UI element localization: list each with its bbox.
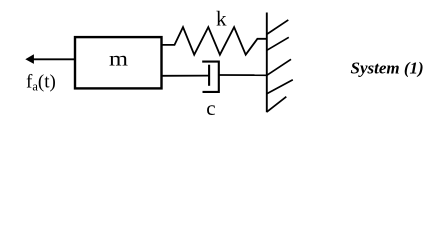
- damper rod right: [219, 74, 267, 76]
- svg-text:c: c: [206, 96, 215, 120]
- force arrow line: [34, 58, 76, 60]
- damper cylinder: [202, 62, 219, 92]
- wall hatch 4: [267, 80, 293, 94]
- svg-text:k: k: [216, 7, 227, 31]
- damper piston plate: [208, 65, 210, 86]
- wall hatch 5: [267, 97, 287, 112]
- wall hatch 2: [267, 37, 289, 50]
- svg-text:System (1): System (1): [351, 58, 424, 77]
- wall hatch 3: [267, 59, 291, 75]
- force arrowhead: [25, 54, 34, 64]
- svg-text:fa(t): fa(t): [26, 72, 56, 94]
- svg-text:m: m: [109, 49, 129, 71]
- wall hatch 1: [267, 20, 288, 34]
- mass block m: [75, 37, 162, 88]
- spring k: [162, 27, 267, 55]
- wall line: [266, 13, 268, 113]
- damper rod left: [162, 75, 210, 77]
